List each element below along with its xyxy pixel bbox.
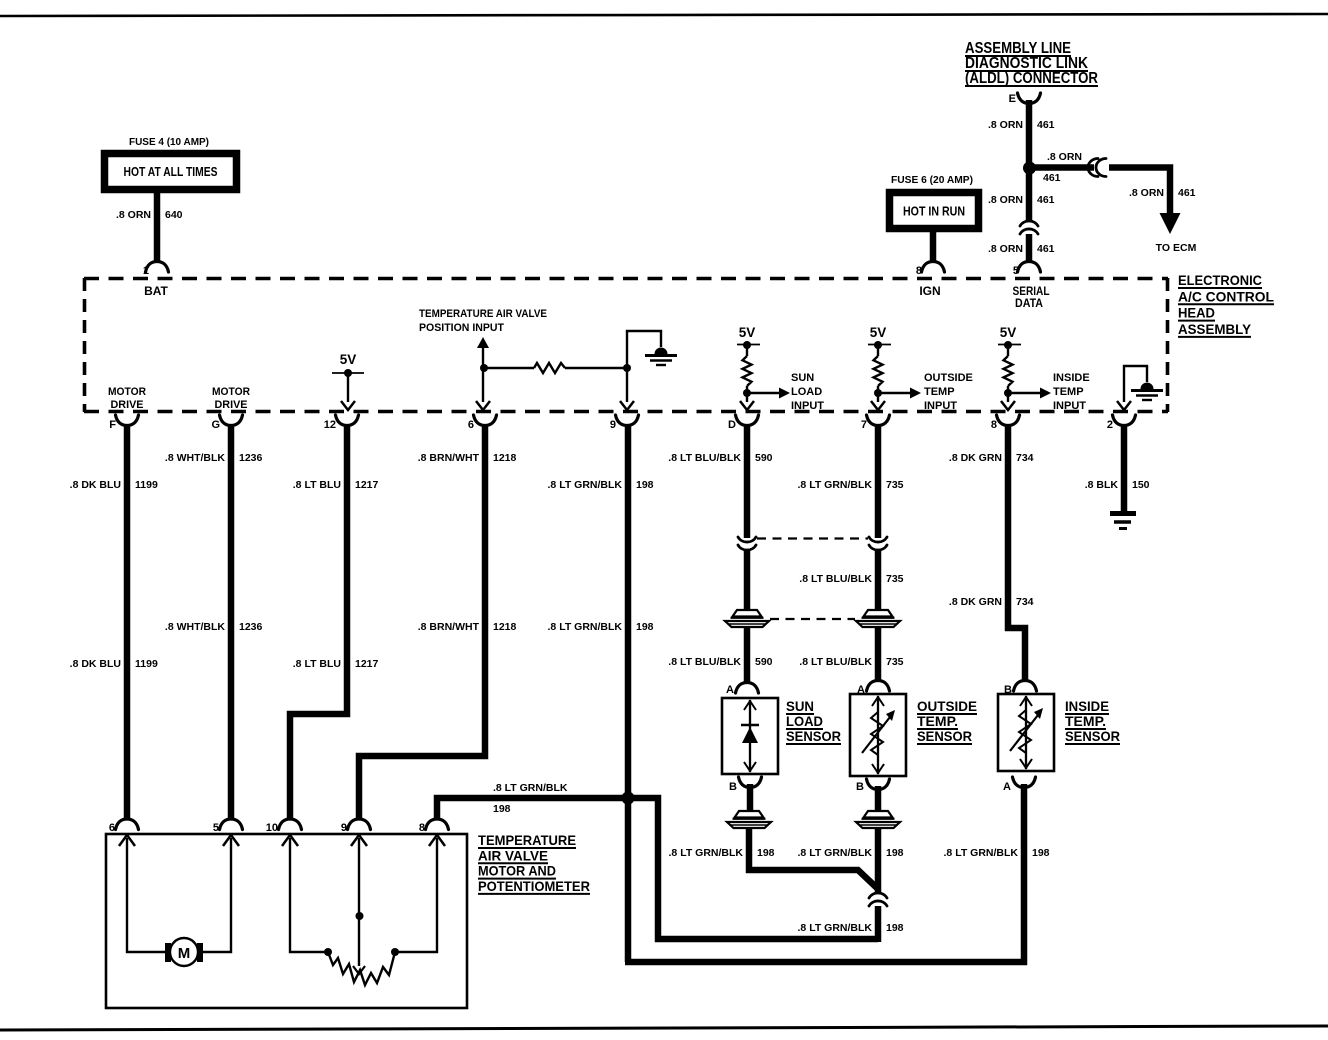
svg-text:HEAD: HEAD: [1178, 306, 1215, 321]
wire WHT/BLK 1236 pin G to motor: [228, 424, 235, 820]
connector outside temp sensor pin A: [857, 681, 889, 697]
svg-text:OUTSIDE: OUTSIDE: [917, 698, 977, 714]
svg-text:.8 LT GRN/BLK: .8 LT GRN/BLK: [669, 847, 744, 859]
svg-text:ELECTRONIC: ELECTRONIC: [1178, 273, 1262, 288]
label .8 LT BLU/BLK 590 a: [668, 452, 772, 464]
connector inside temp sensor pin A: [1003, 777, 1035, 793]
arrowhead inside internal down: [1020, 759, 1032, 768]
motor M: [165, 938, 203, 966]
label .8 LT GRN/BLK 198 outside: [798, 847, 904, 859]
svg-text:INPUT: INPUT: [924, 400, 957, 412]
wire BLK 150 pin 2: [1121, 424, 1128, 512]
junction wiper node: [356, 912, 364, 920]
svg-text:8: 8: [916, 265, 922, 277]
wire LT GRN/BLK 198 outside return: [875, 786, 882, 810]
svg-text:(ALDL) CONNECTOR: (ALDL) CONNECTOR: [965, 70, 1098, 87]
label .8 ORN 461 lower: [988, 243, 1055, 255]
svg-text:9: 9: [610, 419, 616, 431]
svg-text:.8 DK BLU: .8 DK BLU: [70, 479, 121, 491]
junction pot high node: [324, 948, 332, 956]
label .8 LT GRN/BLK 198 sun: [669, 847, 775, 859]
connector pin 8 IGN: [916, 262, 945, 278]
svg-text:5V: 5V: [739, 325, 756, 340]
svg-text:12: 12: [324, 419, 336, 431]
outside temp sensor box: [850, 694, 906, 776]
wire 198 splice to pot low: [437, 798, 628, 820]
svg-text:.8 BRN/WHT: .8 BRN/WHT: [418, 452, 480, 464]
bottom frame line: [0, 1026, 1328, 1030]
wire INSIDE input arrow line: [1008, 392, 1041, 394]
arrowhead into motor box pin 10: [282, 835, 298, 846]
svg-text:.8 LT BLU/BLK: .8 LT BLU/BLK: [799, 573, 872, 585]
arrowhead into pin 6: [476, 401, 490, 410]
junction 5V tap INSIDE: [1004, 341, 1012, 349]
svg-text:INSIDE: INSIDE: [1053, 372, 1090, 384]
svg-text:.8 LT BLU/BLK: .8 LT BLU/BLK: [668, 452, 741, 464]
wire sun sensor internal: [749, 700, 751, 772]
svg-text:590: 590: [755, 452, 773, 464]
junction node SUN input: [743, 389, 751, 397]
label .8 BRN/WHT 1218 a: [418, 452, 517, 464]
label OUTSIDE INPUT: [924, 372, 973, 412]
svg-text:5: 5: [1013, 265, 1019, 277]
junction pot low node: [391, 948, 399, 956]
junction 5V tap SUN: [743, 341, 751, 349]
resistor pullup OUTSIDE: [874, 356, 883, 386]
label ELECTRONIC A/C CONTROL HEAD ASSEMBLY: [1178, 273, 1274, 337]
label .8 BLK 150: [1085, 479, 1150, 491]
svg-text:.8 WHT/BLK: .8 WHT/BLK: [165, 621, 225, 633]
arrowhead into pin 9: [620, 401, 634, 410]
wire LT BLU/BLK 590 to grommet: [744, 550, 751, 610]
svg-text:INSIDE: INSIDE: [1065, 698, 1109, 714]
connector motor box pin 5: [213, 819, 243, 834]
wire ORN 461 junction to serial data: [1026, 170, 1033, 222]
arrowhead sun internal down: [744, 762, 756, 771]
svg-text:MOTOR: MOTOR: [212, 386, 250, 398]
sun load sensor box: [722, 698, 778, 774]
arrowhead into pin 2: [1117, 401, 1131, 410]
connector head pin 9: [610, 415, 639, 431]
svg-text:590: 590: [755, 656, 773, 668]
svg-text:TEMP.: TEMP.: [917, 713, 958, 729]
ground external BLK 150: [1110, 514, 1136, 529]
grommet outside return: [856, 811, 900, 828]
connector sun load sensor pin B: [729, 777, 761, 793]
wire 5V to resistor INSIDE: [1007, 345, 1009, 356]
label .8 WHT/BLK 1236 b: [165, 621, 263, 633]
svg-text:.8 WHT/BLK: .8 WHT/BLK: [165, 452, 225, 464]
wire ORN 461 E to junction: [1026, 100, 1033, 168]
A/C control head assembly dashed box: [84, 278, 1168, 412]
svg-text:.8 DK BLU: .8 DK BLU: [70, 658, 121, 670]
svg-text:1217: 1217: [355, 479, 379, 491]
wire SUN input arrow line: [747, 392, 780, 394]
wire DK GRN 734 pin 8: [1008, 424, 1025, 682]
wire 5V feed to pin 12: [347, 373, 349, 402]
wire LT GRN/BLK 198 to inside temp: [625, 784, 1024, 962]
connector head pin F: [109, 415, 138, 431]
label .8 LT GRN/BLK 198 inside: [944, 847, 1050, 859]
wire OUTSIDE input arrow line: [878, 392, 911, 394]
wire ORN 640 fuse4 to BAT pin 1: [154, 193, 161, 262]
diode sun load sensor: [741, 725, 759, 743]
arrowhead into pin SUN: [740, 401, 754, 410]
wire LT BLU 1217 pin 12 to pot hi: [290, 424, 347, 820]
svg-text:AIR VALVE: AIR VALVE: [478, 847, 548, 863]
svg-text:E: E: [1009, 93, 1016, 105]
grommet sun return: [727, 811, 771, 828]
svg-text:.8 ORN: .8 ORN: [116, 209, 151, 221]
arrowhead to ECM: [1160, 213, 1181, 234]
wire pin 2 to internal ground: [1124, 366, 1147, 402]
wire motor right lead: [203, 838, 231, 952]
svg-text:.8 LT BLU: .8 LT BLU: [293, 479, 341, 491]
wire LT BLU/BLK 590 pin D upper: [744, 424, 751, 538]
thermistor outside temp sensor: [862, 710, 895, 755]
arrowhead into motor box pin 6: [119, 835, 135, 846]
svg-text:461: 461: [1178, 187, 1196, 199]
wire LT BLU/BLK 590 to sensor: [744, 627, 751, 683]
svg-text:8: 8: [991, 419, 997, 431]
svg-text:6: 6: [109, 822, 115, 834]
svg-text:A: A: [1003, 781, 1011, 793]
5V supply OUTSIDE: [868, 325, 891, 345]
svg-text:735: 735: [886, 656, 904, 668]
wire LT GRN/BLK 198 pin 9 down: [625, 424, 632, 962]
label INSIDE INPUT: [1053, 372, 1090, 412]
svg-text:.8 BLK: .8 BLK: [1085, 479, 1119, 491]
arrowhead into motor box pin 9: [351, 835, 367, 846]
svg-text:5V: 5V: [1000, 325, 1017, 340]
svg-text:SUN: SUN: [791, 372, 814, 384]
connector outside temp sensor pin B: [856, 779, 889, 793]
arrowhead OUTSIDE input: [910, 388, 921, 399]
connector head pin 2: [1107, 415, 1136, 431]
label .8 ORN 461 mid: [988, 194, 1055, 206]
wire resistor to pin OUTSIDE: [877, 386, 879, 402]
wire pin 9 drop: [626, 368, 628, 402]
connector head pin 7: [861, 415, 890, 431]
label TEMPERATURE AIR VALVE MOTOR AND POTENTIOMETER: [478, 832, 590, 894]
svg-text:HOT AT ALL TIMES: HOT AT ALL TIMES: [124, 164, 218, 179]
svg-text:.8 LT BLU/BLK: .8 LT BLU/BLK: [668, 656, 741, 668]
arrowhead into motor box pin 5: [223, 835, 239, 846]
svg-text:HOT IN RUN: HOT IN RUN: [903, 205, 965, 219]
svg-text:.8 LT GRN/BLK: .8 LT GRN/BLK: [798, 922, 873, 934]
connector inline 198 return: [869, 893, 887, 906]
5V supply INSIDE: [998, 325, 1021, 345]
wire ORN 461 branch left: [1033, 164, 1094, 171]
svg-text:734: 734: [1016, 452, 1034, 464]
arrowhead temp air valve position input: [477, 337, 489, 348]
wire pot high lead: [290, 838, 326, 952]
potentiometer element: [328, 952, 395, 985]
label .8 WHT/BLK 1236 a: [165, 452, 263, 464]
svg-text:DRIVE: DRIVE: [215, 399, 248, 411]
junction node pin9 sense: [623, 364, 631, 372]
wire pin 6 sense riser: [482, 347, 484, 402]
svg-text:.8 LT BLU: .8 LT BLU: [293, 658, 341, 670]
label INSIDE TEMP. SENSOR: [1065, 698, 1120, 744]
svg-text:461: 461: [1037, 194, 1055, 206]
svg-text:FUSE 6 (20 AMP): FUSE 6 (20 AMP): [891, 174, 973, 186]
svg-text:6: 6: [468, 419, 474, 431]
fuse 6 box HOT IN RUN: [890, 193, 979, 229]
svg-text:ASSEMBLY: ASSEMBLY: [1178, 322, 1251, 337]
svg-text:SUN: SUN: [786, 698, 814, 714]
svg-text:POSITION INPUT: POSITION INPUT: [419, 322, 504, 334]
junction 5V tap OUTSIDE: [874, 341, 882, 349]
svg-text:POTENTIOMETER: POTENTIOMETER: [478, 878, 590, 894]
label SUN INPUT: [791, 372, 824, 412]
svg-text:.8 ORN: .8 ORN: [988, 119, 1023, 131]
arrowhead sun internal up: [744, 701, 756, 710]
svg-text:1236: 1236: [239, 621, 263, 633]
5V supply pin 12: [332, 352, 364, 373]
svg-text:.8 LT GRN/BLK: .8 LT GRN/BLK: [798, 479, 873, 491]
svg-text:INPUT: INPUT: [1053, 400, 1086, 412]
svg-text:9: 9: [341, 822, 347, 834]
wire LT GRN/BLK 198 sun to merge: [749, 828, 878, 889]
svg-text:SENSOR: SENSOR: [786, 728, 841, 744]
wire sense to resistor: [484, 367, 534, 369]
label .8 ORN 461 ecm drop: [1129, 187, 1196, 199]
5V supply SUN: [737, 325, 760, 345]
junction node OUTSIDE input: [874, 389, 882, 397]
svg-text:MOTOR AND: MOTOR AND: [478, 863, 556, 879]
connector head pin D: [728, 415, 758, 431]
svg-text:.8 ORN: .8 ORN: [1129, 187, 1164, 199]
label OUTSIDE TEMP. SENSOR: [917, 698, 977, 744]
svg-text:LOAD: LOAD: [786, 713, 823, 729]
svg-text:.8 ORN: .8 ORN: [988, 194, 1023, 206]
wire BRN/WHT 1218 pin 6 to pot wiper: [359, 424, 485, 820]
connector inline 735: [869, 537, 887, 550]
fuse 4 box HOT AT ALL TIMES: [105, 154, 237, 190]
connector motor box pin 9: [341, 819, 371, 834]
temp air valve motor/potentiometer box: [106, 834, 467, 1008]
svg-text:D: D: [728, 419, 736, 431]
grommet 735: [856, 610, 900, 627]
wire 5V to resistor OUTSIDE: [877, 345, 879, 356]
connector head pin 8: [991, 415, 1020, 431]
wire 5V to resistor SUN: [746, 345, 748, 356]
wire resistor to pin 9 node: [565, 367, 627, 369]
svg-text:640: 640: [165, 209, 183, 221]
wire LT GRN/BLK 198 below conn: [875, 906, 882, 942]
wire ORN 461 below connector: [1026, 234, 1033, 262]
arrowhead INSIDE input: [1040, 388, 1051, 399]
connector inline 590: [738, 537, 756, 550]
svg-text:.8 DK GRN: .8 DK GRN: [949, 452, 1002, 464]
svg-text:1: 1: [143, 265, 149, 277]
svg-text:G: G: [211, 419, 220, 431]
arrowhead inside internal up: [1020, 697, 1032, 706]
label .8 DK BLU 1199 b: [70, 658, 158, 670]
label SUN LOAD SENSOR: [786, 698, 841, 744]
resistor head internal: [534, 363, 565, 373]
wire pot low lead: [397, 838, 437, 952]
arrowhead SUN input: [779, 388, 790, 399]
wire LT GRN/BLK 198 outside to conn: [875, 828, 882, 894]
connector ALDL pin E: [1009, 93, 1041, 105]
wire fuse6 to IGN pin 8: [930, 228, 937, 262]
svg-text:1218: 1218: [493, 621, 517, 633]
svg-text:735: 735: [886, 573, 904, 585]
svg-text:.8 LT GRN/BLK: .8 LT GRN/BLK: [798, 847, 873, 859]
svg-text:198: 198: [636, 479, 654, 491]
svg-text:SENSOR: SENSOR: [917, 728, 972, 744]
wire 198 splice to sensor returns: [628, 798, 878, 939]
svg-text:5: 5: [213, 822, 219, 834]
svg-text:B: B: [856, 781, 864, 793]
wire node to internal ground: [627, 331, 661, 368]
svg-text:198: 198: [493, 803, 511, 815]
label .8 LT GRN/BLK 198 two-line: [493, 782, 568, 815]
connector head pin 12: [324, 415, 359, 431]
svg-text:INPUT: INPUT: [791, 400, 824, 412]
wire DK BLU 1199 pin F to motor: [124, 424, 131, 820]
junction node ORN 461 splice: [1023, 162, 1036, 175]
svg-text:IGN: IGN: [919, 284, 940, 298]
connector motor box pin 8: [419, 819, 449, 834]
svg-text:.8 DK GRN: .8 DK GRN: [949, 596, 1002, 608]
junction node pin6 sense: [480, 364, 488, 372]
label .8 LT GRN/BLK 198 c: [798, 922, 904, 934]
label .8 ORN 640: [116, 209, 183, 221]
svg-text:TO ECM: TO ECM: [1156, 242, 1197, 254]
junction node ground 198 splice: [622, 792, 635, 805]
label .8 LT BLU/BLK 735 b: [799, 573, 903, 585]
svg-text:5V: 5V: [870, 325, 887, 340]
dashed link inline connectors: [757, 537, 868, 539]
arrowhead wiper arrow: [353, 966, 365, 974]
connector motor box pin 10: [266, 819, 302, 834]
top frame line: [0, 14, 1328, 16]
svg-text:.8 ORN: .8 ORN: [988, 243, 1023, 255]
svg-text:.8 BRN/WHT: .8 BRN/WHT: [418, 621, 480, 633]
wire pot wiper lead: [358, 838, 360, 966]
arrowhead into motor box pin 8: [429, 835, 445, 846]
svg-text:F: F: [109, 419, 116, 431]
junction node INSIDE input: [1004, 389, 1012, 397]
connector pin 1 BAT: [143, 262, 169, 278]
svg-text:734: 734: [1016, 596, 1034, 608]
label .8 DK BLU 1199 a: [70, 479, 158, 491]
svg-text:TEMP: TEMP: [1053, 386, 1084, 398]
svg-text:10: 10: [266, 822, 278, 834]
connector inline ALDL 461: [1020, 221, 1038, 234]
svg-text:SENSOR: SENSOR: [1065, 728, 1120, 744]
svg-text:MOTOR: MOTOR: [108, 386, 146, 398]
thermistor inside temp sensor: [1010, 708, 1043, 753]
grommet 590: [725, 610, 769, 627]
connector head pin G: [211, 415, 242, 431]
svg-text:BAT: BAT: [144, 284, 168, 298]
label MOTOR DRIVE (pin F): [108, 386, 146, 411]
svg-text:A: A: [726, 684, 734, 696]
svg-text:.8 LT GRN/BLK: .8 LT GRN/BLK: [548, 621, 623, 633]
svg-text:8: 8: [419, 822, 425, 834]
label .8 LT BLU 1217 a: [293, 479, 379, 491]
svg-text:461: 461: [1037, 119, 1055, 131]
svg-text:150: 150: [1132, 479, 1150, 491]
svg-text:7: 7: [861, 419, 867, 431]
label .8 LT BLU/BLK 590 b: [668, 656, 772, 668]
wire LT GRN/BLK 198 sun return: [747, 784, 754, 810]
svg-text:198: 198: [886, 847, 904, 859]
wire inside sensor internal: [1025, 696, 1027, 769]
wire resistor to pin INSIDE: [1007, 386, 1009, 402]
svg-text:2: 2: [1107, 419, 1113, 431]
wire LT BLU/BLK 735 to sensor: [875, 627, 882, 681]
svg-text:OUTSIDE: OUTSIDE: [924, 372, 973, 384]
arrowhead into pin INSIDE: [1001, 401, 1015, 410]
svg-text:TEMP: TEMP: [924, 386, 955, 398]
inside temp sensor box: [998, 694, 1054, 771]
svg-text:198: 198: [757, 847, 775, 859]
connector sun load sensor pin A: [726, 683, 758, 697]
label .8 LT GRN/BLK 735 a: [798, 479, 904, 491]
svg-text:.8 LT GRN/BLK: .8 LT GRN/BLK: [548, 479, 623, 491]
wire outside sensor internal: [877, 696, 879, 774]
connector inside temp sensor pin B: [1004, 681, 1036, 697]
label .8 ORN 461 upper: [988, 119, 1055, 131]
label MOTOR DRIVE (pin G): [212, 386, 250, 411]
svg-text:TEMPERATURE: TEMPERATURE: [478, 832, 576, 848]
svg-text:.8 ORN: .8 ORN: [1047, 151, 1082, 163]
wire ORN 461 to ECM: [1109, 168, 1170, 215]
svg-text:461: 461: [1043, 172, 1061, 184]
arrowhead into pin 12: [341, 401, 355, 410]
svg-text:TEMPERATURE AIR VALVE: TEMPERATURE AIR VALVE: [419, 308, 547, 320]
svg-text:FUSE 4 (10 AMP): FUSE 4 (10 AMP): [129, 136, 209, 148]
resistor pullup SUN: [743, 356, 752, 386]
label .8 LT GRN/BLK 198 a: [548, 479, 654, 491]
label .8 LT GRN/BLK 198 b: [548, 621, 654, 633]
svg-text:.8 LT GRN/BLK: .8 LT GRN/BLK: [493, 782, 568, 794]
svg-text:B: B: [729, 781, 737, 793]
junction 5V tap pin 12: [344, 369, 352, 377]
wire LT BLU/BLK 735 to grommet: [875, 550, 882, 610]
svg-text:.8 LT BLU/BLK: .8 LT BLU/BLK: [799, 656, 872, 668]
label .8 BRN/WHT 1218 b: [418, 621, 517, 633]
svg-text:1199: 1199: [135, 479, 158, 491]
connector head pin 6: [468, 415, 497, 431]
svg-text:198: 198: [1032, 847, 1050, 859]
svg-text:M: M: [178, 945, 191, 962]
label SERIAL DATA: [1013, 284, 1050, 310]
svg-text:.8 LT GRN/BLK: .8 LT GRN/BLK: [944, 847, 1019, 859]
svg-text:461: 461: [1037, 243, 1055, 255]
ground head internal ground B: [1131, 383, 1163, 400]
svg-text:1199: 1199: [135, 658, 158, 670]
svg-text:LOAD: LOAD: [791, 386, 822, 398]
label .8 LT BLU 1217 b: [293, 658, 379, 670]
svg-text:198: 198: [636, 621, 654, 633]
svg-text:A/C CONTROL: A/C CONTROL: [1178, 289, 1274, 304]
svg-text:735: 735: [886, 479, 904, 491]
wire LT GRN/BLK 735 pin 7 upper: [875, 424, 882, 538]
svg-text:5V: 5V: [340, 352, 357, 367]
connector inline to ECM: [1088, 159, 1106, 177]
svg-text:198: 198: [886, 922, 904, 934]
label .8 LT BLU/BLK 735 c: [799, 656, 903, 668]
ground head internal ground A: [645, 348, 677, 366]
label .8 DK GRN 734 a: [949, 452, 1034, 464]
arrowhead outside internal down: [872, 764, 884, 773]
